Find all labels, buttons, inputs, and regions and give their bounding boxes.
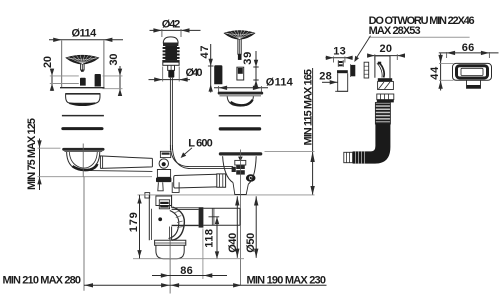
svg-text:MIN 190 MAX 230: MIN 190 MAX 230 — [247, 274, 327, 286]
left strainer stem — [81, 64, 85, 70]
dimension 179 line — [139, 195, 141, 259]
right gasket thin — [219, 115, 261, 117]
dimension 118 tick — [209, 216, 220, 218]
upper pipe mid segment — [174, 174, 217, 188]
thin gasket piece — [364, 62, 369, 78]
tee side plug ball — [246, 174, 256, 182]
bottom left extension line — [83, 177, 85, 291]
actuator leg right — [172, 182, 179, 192]
dimension Ø114 left line — [49, 39, 123, 41]
svg-text:Ø114: Ø114 — [266, 76, 294, 88]
siphon outlet arm — [172, 208, 199, 210]
overflow elbow hook body — [375, 56, 390, 78]
plug 20 — [80, 78, 86, 86]
hose coupler top — [377, 94, 394, 100]
right stem black block — [238, 54, 242, 60]
dimension 86 line — [152, 275, 227, 277]
overflow box dark ring — [457, 66, 488, 78]
overflow elbow base bar — [378, 78, 392, 81]
siphon swoosh curve — [172, 207, 184, 240]
long reference line cup bottom — [133, 258, 244, 260]
right drain popup machinery — [235, 160, 246, 165]
hose end coupler — [344, 152, 353, 162]
svg-text:44: 44 — [429, 66, 441, 80]
knob tailpiece — [168, 65, 175, 70]
dimension 118 line — [216, 217, 218, 259]
dimension 20 line and arrows — [51, 69, 53, 92]
right strainer stem — [238, 39, 241, 54]
siphon body tube — [149, 195, 171, 240]
svg-text:30: 30 — [108, 54, 120, 66]
knob tail black tip — [168, 70, 174, 77]
siphon body dot — [158, 217, 162, 221]
actuator pulley — [159, 159, 168, 168]
plug 30 — [95, 74, 101, 87]
left gasket thin — [62, 115, 104, 117]
dimension 13 line — [326, 57, 353, 59]
svg-text:MAX 28X53: MAX 28X53 — [369, 25, 421, 37]
extension line drain flange — [38, 147, 61, 149]
left drain centre line — [82, 144, 84, 177]
dimension 20 overflow line — [368, 55, 405, 57]
cylinder 39 — [237, 67, 244, 80]
right strainer cap — [225, 31, 255, 39]
bracket top clip — [338, 60, 343, 67]
overflow elbow inner claw — [378, 62, 384, 77]
lower pipe to right — [203, 208, 240, 225]
control cable bend L600 — [172, 145, 233, 169]
dimension Ø114 right line — [214, 87, 268, 89]
cable actuator housing — [160, 151, 170, 157]
siphon collar — [155, 240, 186, 245]
left drain bowl dark base — [73, 164, 98, 170]
long reference line lower pipe axis — [138, 194, 315, 196]
actuator body under pipe — [157, 170, 170, 178]
outlet arm end joint — [199, 207, 204, 227]
right drain lower cone — [233, 183, 248, 195]
overflow box neck — [467, 80, 481, 88]
dimension 66 line — [439, 52, 499, 54]
right drain bowl — [223, 156, 257, 184]
left gasket thick — [61, 127, 103, 130]
dimension 47 line — [210, 44, 212, 93]
right flange bowl — [227, 96, 253, 106]
siphon cup — [156, 245, 184, 258]
siphon inlet tab — [145, 193, 150, 198]
dimension 86 extension — [202, 229, 204, 280]
bracket body — [338, 73, 348, 91]
right gasket thick — [219, 127, 262, 130]
extension line right hole edge — [103, 41, 105, 88]
pipe coupling nut — [217, 174, 226, 187]
label underline leader — [369, 36, 470, 38]
left drain body flange — [62, 148, 104, 151]
svg-text:20: 20 — [380, 43, 393, 55]
dark slab — [351, 65, 355, 76]
control cable vertical — [170, 78, 172, 150]
dimension 28 arrow — [322, 81, 338, 83]
right drain flange bar — [219, 152, 262, 155]
left drain outlet pipe — [100, 156, 152, 169]
siphon inlet clamp — [156, 196, 172, 206]
flow arrow under right flange — [238, 157, 243, 162]
svg-text:L 600: L 600 — [188, 137, 213, 149]
overflow connector — [378, 82, 394, 90]
hose horizontal ribs — [353, 151, 367, 163]
popup actuator dark blocks — [232, 167, 236, 172]
knob ribbed body — [165, 46, 177, 61]
svg-text:20: 20 — [42, 56, 54, 68]
right drain centre line — [240, 150, 242, 286]
left drain bowl — [67, 152, 100, 171]
siphon centre line — [169, 238, 171, 294]
overflow box outer — [453, 63, 492, 80]
long reference line left pipe axis — [38, 176, 153, 178]
svg-text:39: 39 — [242, 52, 254, 65]
dimension 30 line and arrows — [119, 66, 121, 96]
actuator clamp bar — [156, 178, 171, 183]
dimension MIN 115 MAX 165 line — [312, 68, 314, 195]
svg-text:118: 118 — [204, 229, 216, 248]
bracket top bar — [337, 70, 348, 73]
plug 47 — [214, 65, 222, 84]
dimension MIN 75 MAX 125 line — [39, 139, 41, 191]
dimension 44 line — [440, 54, 442, 91]
right flange bowl dark base — [231, 100, 253, 105]
knob cap — [163, 37, 178, 43]
right flange bar — [218, 92, 264, 95]
actuator leg left — [158, 182, 163, 191]
svg-text:47: 47 — [199, 46, 211, 59]
extension line right flange top — [265, 150, 315, 152]
extension line left hole edge — [61, 41, 63, 88]
dimension Ø42 line — [150, 29, 201, 31]
sink deck line — [60, 87, 105, 89]
svg-text:13: 13 — [333, 45, 346, 57]
left flange base ring — [69, 103, 95, 105]
knob nut — [163, 61, 179, 66]
hose ribbed section — [375, 103, 390, 125]
pipe underside outline — [90, 170, 152, 173]
dimension Ø40 lower line — [236, 196, 238, 257]
leader to bracket slab — [357, 36, 371, 58]
leader L 600 — [183, 148, 192, 156]
svg-text:Ø42: Ø42 — [162, 18, 181, 30]
svg-text:MIN 75 MAX 125: MIN 75 MAX 125 — [26, 118, 38, 190]
svg-text:MIN 210 MAX 280: MIN 210 MAX 280 — [3, 274, 82, 286]
overflow box slot — [461, 68, 483, 75]
dimension Ø50 lower line — [255, 196, 257, 257]
hose solid vertical and elbow — [367, 124, 391, 164]
bottom dimension line — [84, 284, 327, 286]
left strainer cap — [66, 55, 98, 64]
svg-text:Ø114: Ø114 — [72, 28, 98, 40]
svg-text:179: 179 — [128, 212, 140, 232]
dimension Ø40 middle line — [149, 79, 191, 81]
left flange body — [66, 94, 100, 103]
svg-text:Ø40: Ø40 — [186, 67, 203, 79]
dimension 39 line — [255, 51, 257, 88]
